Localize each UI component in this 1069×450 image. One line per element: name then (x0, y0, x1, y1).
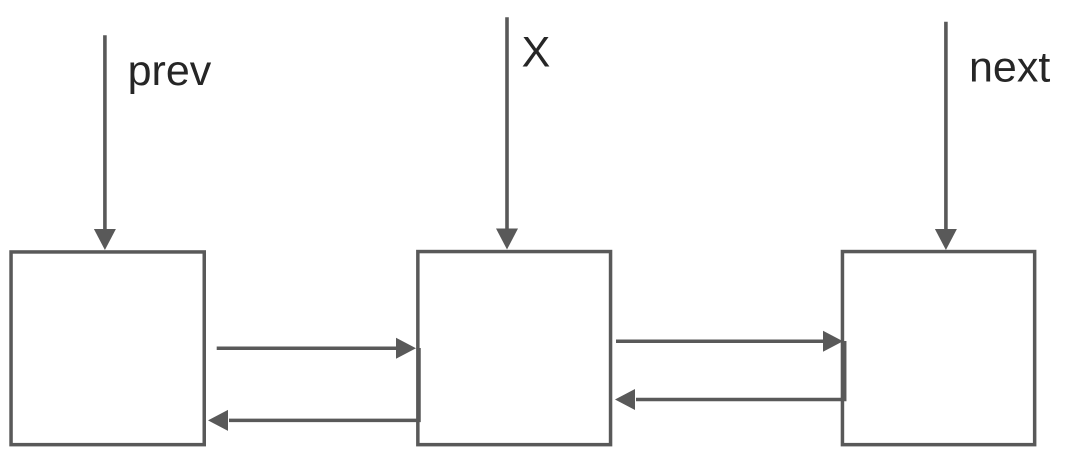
svg-text:next: next (969, 44, 1050, 92)
node box3 (right list node) (842, 252, 1034, 445)
wire back arrow box2 to box1 (elbow) (208, 348, 419, 431)
wire forward arrow box1 to box2 (217, 338, 416, 359)
svg-text:prev: prev (128, 47, 212, 95)
wire X pointer (vertical arrow into box2) (496, 17, 518, 249)
wire prev pointer (vertical arrow into box1) (94, 35, 116, 250)
wire next pointer (vertical arrow into box3) (935, 22, 957, 250)
node box2 (middle list node X) (418, 252, 611, 445)
node box1 (left list node) (11, 252, 204, 445)
wire back arrow box3 to box2 (elbow) (615, 341, 845, 410)
svg-text:X: X (522, 29, 551, 77)
wire forward arrow box2 to box3 (616, 331, 843, 352)
